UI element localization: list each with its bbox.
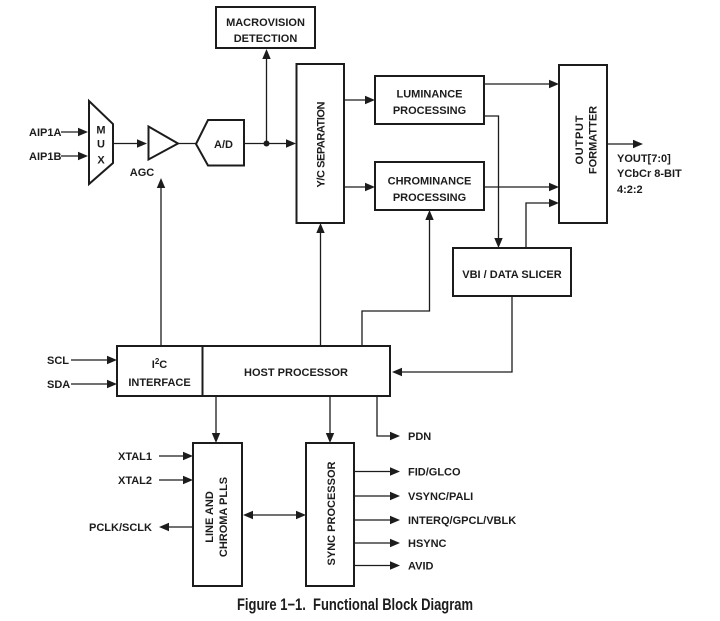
- svg-text:AVID: AVID: [408, 561, 434, 573]
- svg-text:VBI / DATA SLICER: VBI / DATA SLICER: [462, 269, 561, 281]
- svg-text:DETECTION: DETECTION: [234, 33, 298, 45]
- svg-text:FID/GLCO: FID/GLCO: [408, 467, 461, 479]
- wire SDA input: [71, 380, 117, 388]
- wire HSYNC output: [354, 539, 400, 547]
- svg-text:AIP1A: AIP1A: [29, 127, 61, 139]
- wire INTERQ/GPCL/VBLK output: [354, 516, 400, 524]
- svg-text:INTERFACE: INTERFACE: [128, 377, 190, 389]
- junction dot: [264, 141, 270, 147]
- wire VBI slicer to formatter: [526, 199, 559, 248]
- svg-text:INTERQ/GPCL/VBLK: INTERQ/GPCL/VBLK: [408, 515, 516, 527]
- wire XTAL1 input: [159, 452, 193, 460]
- wire host processor to sync processor: [326, 396, 334, 443]
- wire formatter output: [607, 140, 643, 148]
- svg-text:SDA: SDA: [47, 379, 70, 391]
- svg-text:HOST PROCESSOR: HOST PROCESSOR: [244, 367, 348, 379]
- wire A/D to Y/C separation: [244, 139, 296, 147]
- svg-text:Figure 1−1. Functional Block: Figure 1−1. Functional Block Diagram: [237, 596, 473, 614]
- wire Y/C to luminance: [344, 96, 375, 104]
- svg-text:U: U: [97, 139, 105, 151]
- wire mux to AGC: [113, 139, 147, 147]
- wire host processor to AGC: [157, 178, 165, 346]
- svg-text:XTAL2: XTAL2: [118, 475, 152, 487]
- wire SCL input: [71, 356, 117, 364]
- svg-text:AGC: AGC: [130, 167, 155, 179]
- wire PDN output: [377, 396, 400, 440]
- wire host processor to chrominance: [362, 210, 434, 346]
- svg-text:HSYNC: HSYNC: [408, 538, 447, 550]
- svg-text:PCLK/SCLK: PCLK/SCLK: [89, 522, 152, 534]
- amplifier AGC: [130, 127, 178, 180]
- svg-text:4:2:2: 4:2:2: [617, 184, 643, 196]
- svg-text:CHROMINANCE: CHROMINANCE: [388, 176, 472, 188]
- svg-text:VSYNC/PALI: VSYNC/PALI: [408, 491, 473, 503]
- svg-text:SCL: SCL: [47, 355, 69, 367]
- wire VBI slicer to host processor: [392, 296, 512, 376]
- wire PLLs to sync processor bidirectional: [243, 511, 306, 519]
- svg-text:SYNC PROCESSOR: SYNC PROCESSOR: [326, 461, 338, 565]
- wire host processor to line/chroma PLLs: [212, 396, 220, 443]
- wire XTAL2 input: [159, 476, 193, 484]
- svg-text:AIP1B: AIP1B: [29, 151, 61, 163]
- block CHROMINANCE PROCESSING: [375, 162, 484, 210]
- svg-text:XTAL1: XTAL1: [118, 451, 152, 463]
- svg-text:MACROVISION: MACROVISION: [226, 17, 305, 29]
- block LINE AND CHROMA PLLS: [193, 443, 242, 586]
- block MACROVISION DETECTION: [216, 7, 315, 48]
- block OUTPUT FORMATTER: [559, 65, 607, 223]
- svg-text:A/D: A/D: [214, 139, 233, 151]
- block VBI / DATA SLICER: [453, 248, 571, 296]
- block I2C INTERFACE / HOST PROCESSOR: [117, 346, 390, 396]
- wire VSYNC/PALI output: [354, 492, 400, 500]
- wire AVID output: [354, 561, 400, 569]
- svg-text:PROCESSING: PROCESSING: [393, 105, 466, 117]
- converter A/D: [196, 120, 244, 166]
- wire FID/GLCO output: [354, 467, 400, 475]
- wire chrominance to formatter: [484, 183, 559, 191]
- wire junction to macrovision detection: [262, 49, 270, 144]
- svg-text:PROCESSING: PROCESSING: [393, 192, 466, 204]
- wire AGC to A/D: [178, 143, 196, 145]
- wire AIP1A input: [61, 128, 88, 136]
- block SYNC PROCESSOR: [306, 443, 354, 586]
- svg-text:M: M: [96, 125, 105, 137]
- wire host processor to Y/C separation: [316, 223, 324, 346]
- svg-text:LUMINANCE: LUMINANCE: [397, 89, 463, 101]
- svg-text:PDN: PDN: [408, 431, 431, 443]
- svg-text:Y/C SEPARATION: Y/C SEPARATION: [316, 101, 328, 187]
- wire luminance to formatter: [484, 80, 559, 88]
- mux U1: [89, 101, 113, 184]
- block LUMINANCE PROCESSING: [375, 76, 484, 124]
- svg-text:YCbCr 8-BIT: YCbCr 8-BIT: [617, 168, 682, 180]
- wire AIP1B input: [61, 152, 88, 160]
- svg-text:X: X: [97, 155, 105, 167]
- wire PCLK/SCLK output: [159, 523, 193, 531]
- wire luminance to VBI slicer: [484, 116, 503, 248]
- svg-text:YOUT[7:0]: YOUT[7:0]: [617, 153, 671, 165]
- svg-text:I2C: I2C: [152, 357, 168, 371]
- wire Y/C to chrominance: [344, 183, 375, 191]
- block Y/C SEPARATION: [297, 64, 345, 223]
- svg-text:OUTPUTFORMATTER: OUTPUTFORMATTER: [574, 106, 600, 174]
